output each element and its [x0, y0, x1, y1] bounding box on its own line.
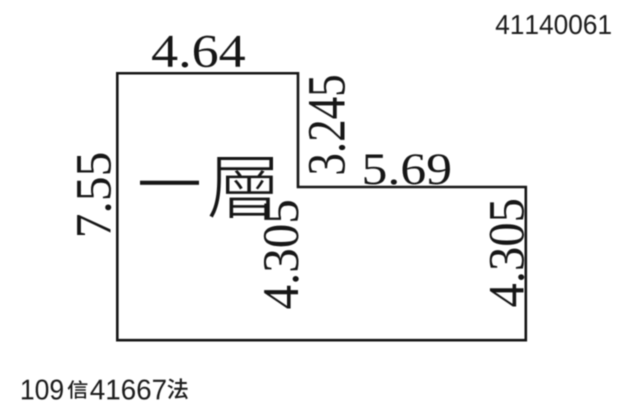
case id 法 glyph	[168, 378, 188, 399]
dimension 4.305 (right edge, rotated)	[490, 200, 525, 307]
case id digits 41667	[90, 380, 165, 400]
dimension 7.55 (left edge, rotated)	[77, 154, 111, 235]
dimension 4.305 (center, rotated)	[264, 201, 299, 308]
floor label 一 (first) stroke	[140, 181, 199, 185]
floor plan outline (L-shaped first-floor footprint)	[117, 73, 526, 340]
dimension 5.69 (middle edge)	[365, 154, 450, 184]
dimension 4.64 (top edge)	[152, 36, 245, 68]
floor label 層 (floor) glyph	[209, 157, 272, 218]
dimension 3.245 (notch edge, rotated)	[309, 76, 346, 173]
case id digits 109	[22, 380, 63, 400]
case id 信 glyph	[68, 380, 88, 399]
sheet number 41140061	[496, 15, 611, 34]
